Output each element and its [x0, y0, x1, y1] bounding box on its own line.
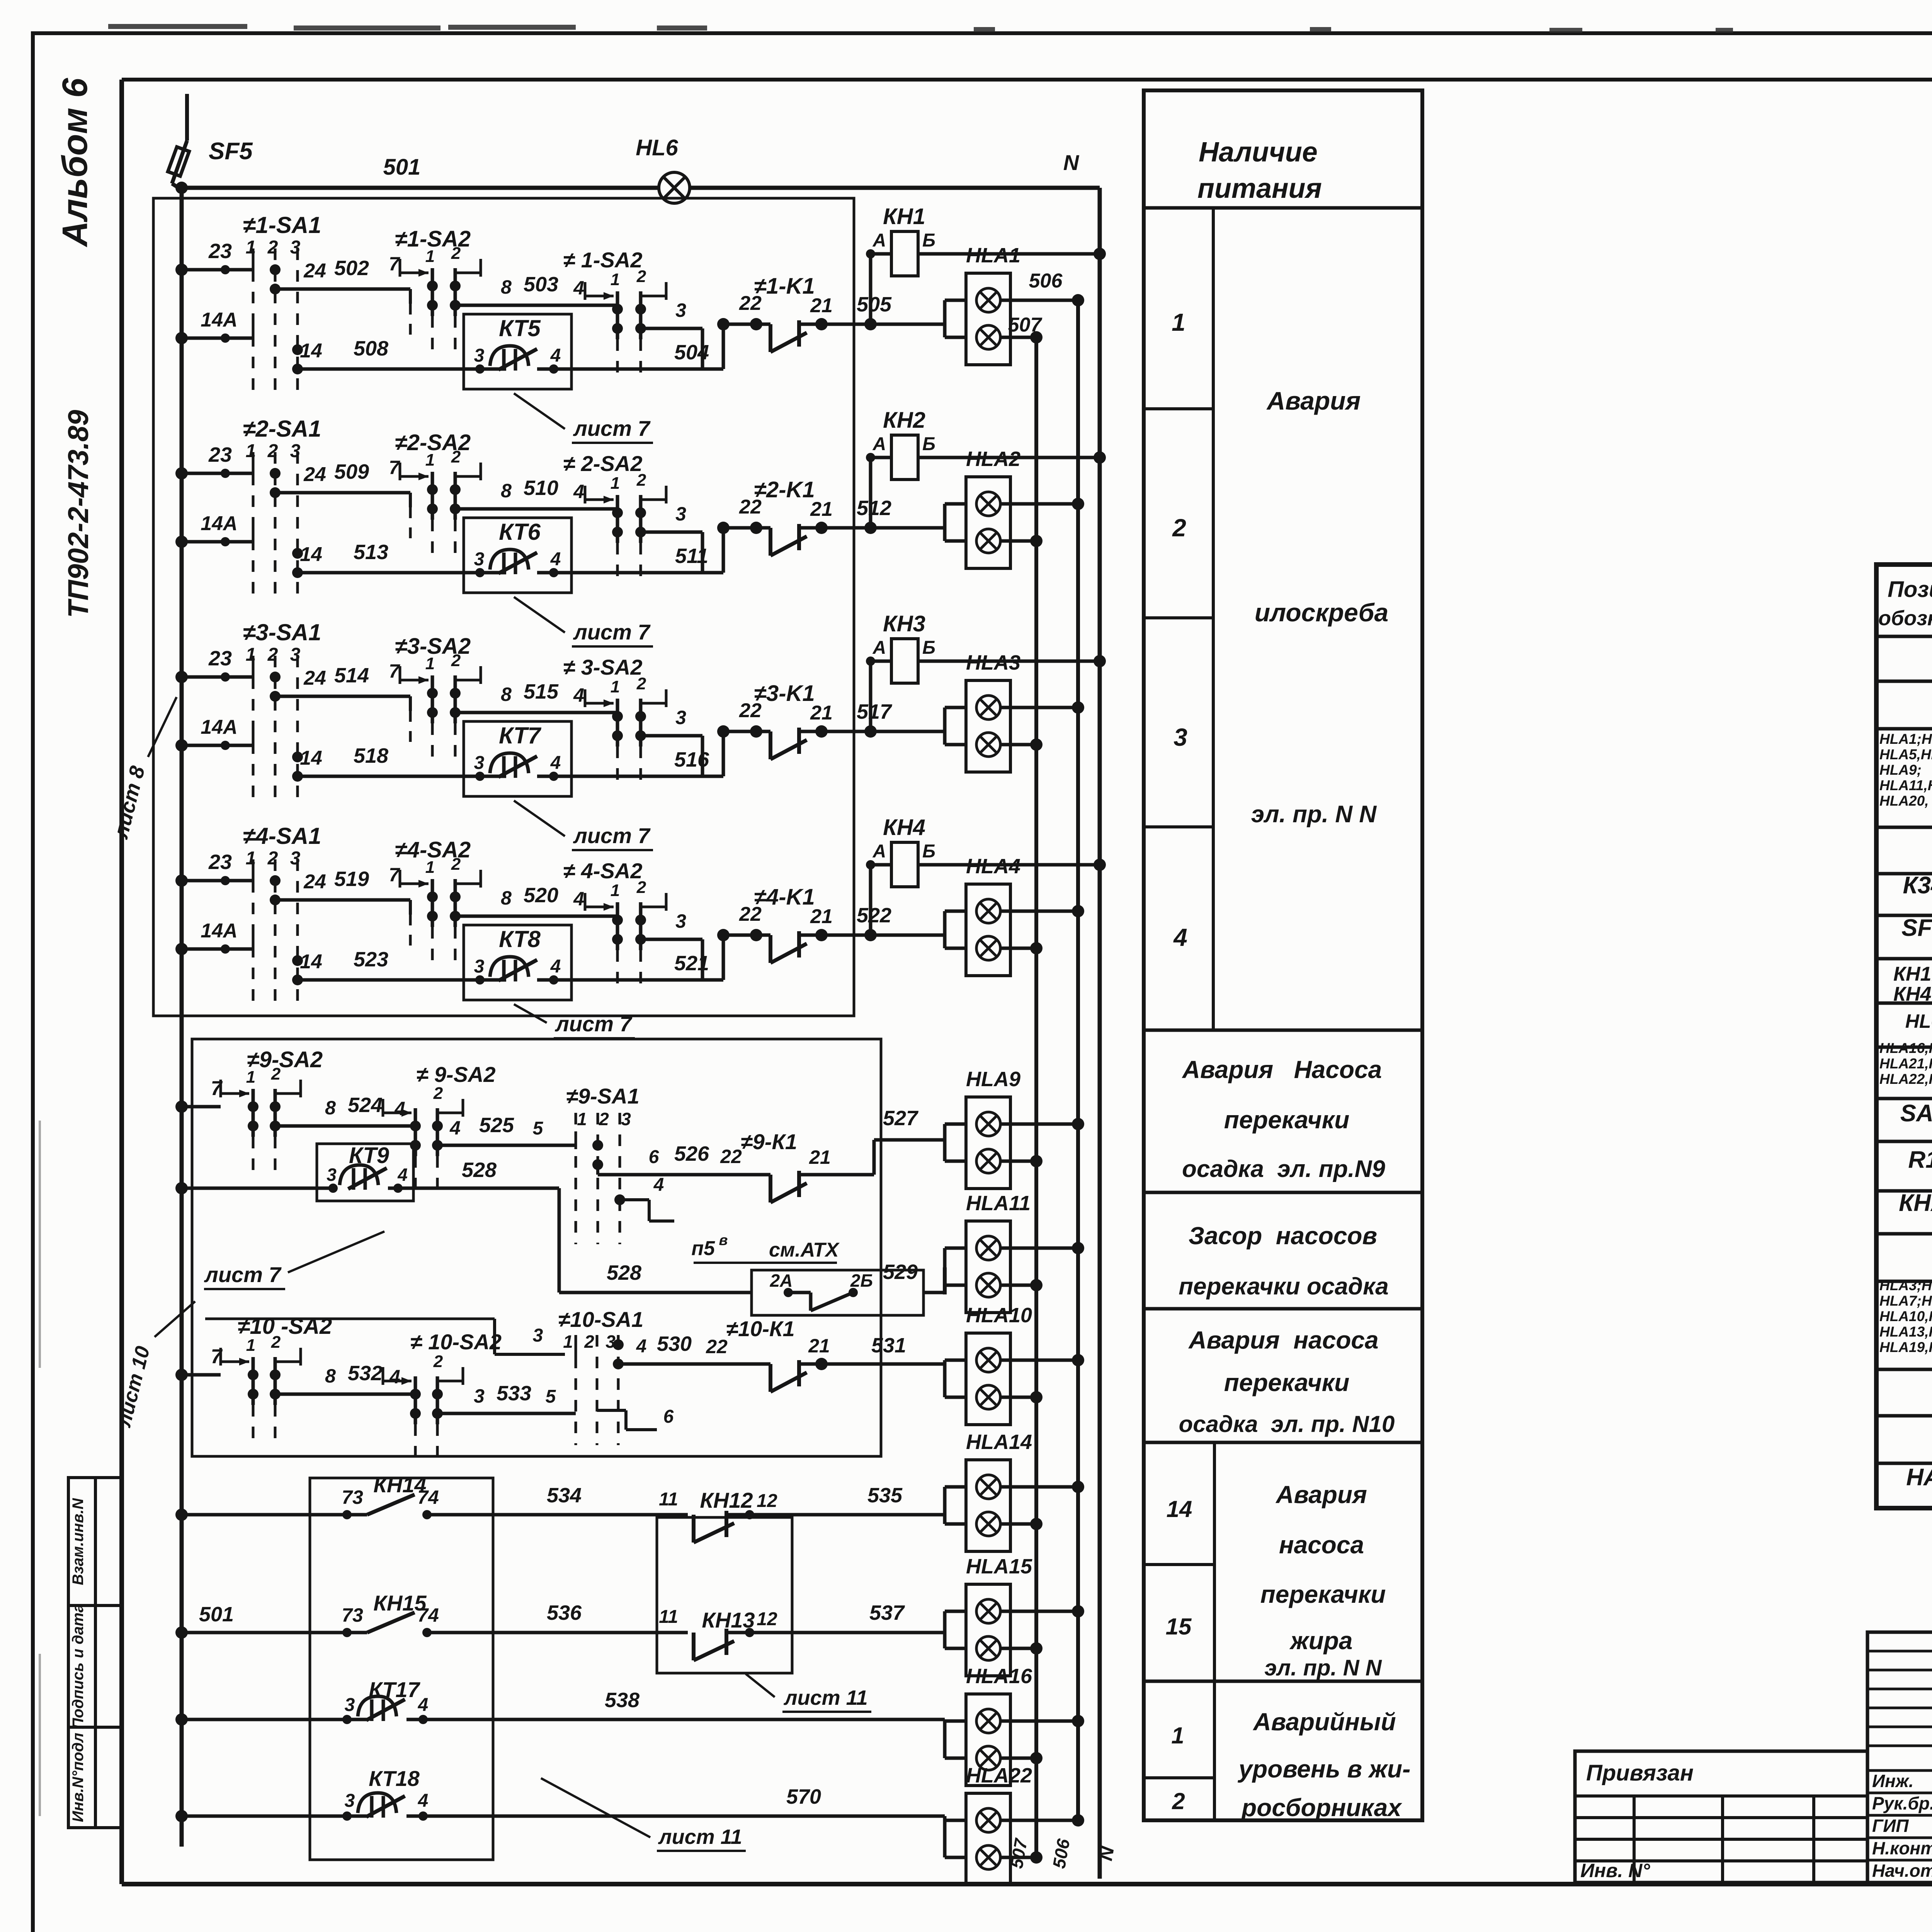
svg-text:2: 2: [1172, 514, 1186, 542]
svg-text:А: А: [872, 638, 886, 658]
wire 517 row 3: [799, 730, 945, 733]
svg-text:14: 14: [300, 340, 322, 362]
wire 511 row 2: [571, 571, 723, 575]
svg-text:HLA7;HLA8: HLA7;HLA8: [1879, 1293, 1932, 1309]
wire 519 row 4: [275, 898, 410, 902]
wire 14 513 row 2: [298, 571, 464, 575]
svg-text:HLA22,HLA25: HLA22,HLA25: [1879, 1071, 1932, 1087]
svg-text:жира: жира: [1289, 1627, 1353, 1655]
svg-text:4: 4: [573, 888, 584, 910]
svg-text:24: 24: [303, 871, 326, 893]
svg-text:эл. пр. N N: эл. пр. N N: [1251, 801, 1377, 828]
wire 23 tap row 3: [182, 675, 253, 679]
svg-text:3: 3: [533, 1325, 543, 1346]
svg-text:538: 538: [605, 1689, 639, 1712]
svg-text:527: 527: [883, 1107, 919, 1130]
svg-text:N: N: [1063, 150, 1080, 175]
contacts box КН12-КН13: [657, 1517, 792, 1673]
svg-text:питания: питания: [1197, 173, 1322, 204]
leader list 8: [148, 697, 177, 757]
svg-text:507: 507: [1008, 314, 1043, 336]
svg-text:ГИП: ГИП: [1872, 1816, 1909, 1836]
wire 3 out row 1: [641, 327, 702, 330]
svg-text:570: 570: [786, 1785, 821, 1808]
svg-text:526: 526: [674, 1142, 709, 1165]
svg-text:HLA21,HLA14,: HLA21,HLA14,: [1879, 1056, 1932, 1071]
svg-text:см.АТХ: см.АТХ: [769, 1239, 840, 1261]
svg-text:1: 1: [425, 858, 435, 877]
svg-text:Рук.бр.: Рук.бр.: [1872, 1793, 1932, 1813]
svg-text:1: 1: [246, 441, 256, 461]
svg-text:HLA9;: HLA9;: [1879, 762, 1922, 778]
svg-text:73: 73: [342, 1486, 363, 1508]
wire 3 from upper box: [493, 1319, 496, 1354]
wire 525 row 9: [437, 1144, 576, 1147]
wire 23 tap row 2: [182, 472, 253, 475]
svg-text:обознач.: обознач.: [1878, 607, 1932, 630]
svg-text:2: 2: [599, 1109, 609, 1129]
svg-text:1: 1: [563, 1332, 573, 1352]
svg-text:1: 1: [246, 1336, 255, 1355]
group box drives 1-4: [153, 198, 854, 1016]
svg-text:2: 2: [451, 855, 461, 874]
svg-text:6: 6: [663, 1406, 674, 1427]
wire 514 row 3: [275, 695, 410, 698]
svg-text:Авария: Авария: [1275, 1481, 1367, 1509]
svg-text:Засор насосов: Засор насосов: [1189, 1222, 1377, 1250]
svg-text:7: 7: [211, 1345, 223, 1368]
svg-text:эл. пр. N N: эл. пр. N N: [1264, 1655, 1382, 1680]
svg-text:2: 2: [271, 1333, 281, 1352]
svg-text:HLA4: HLA4: [966, 855, 1020, 878]
left feeder bus from SF5: [180, 188, 184, 1847]
svg-text:2: 2: [1172, 1788, 1185, 1814]
svg-text:524: 524: [348, 1094, 383, 1117]
time relay contact КТ7: [464, 721, 571, 796]
leader list 7 KT9: [288, 1231, 384, 1272]
svg-text:24: 24: [303, 463, 326, 486]
svg-text:HLA13,HLA18: HLA13,HLA18: [1879, 1324, 1932, 1340]
svg-text:501: 501: [199, 1603, 234, 1626]
svg-text:Аварийный: Аварийный: [1252, 1708, 1396, 1736]
svg-text:1: 1: [246, 1068, 255, 1087]
svg-text:4: 4: [573, 481, 584, 502]
scan artifact smudges: [108, 24, 247, 29]
svg-text:КН13: КН13: [702, 1608, 755, 1632]
svg-text:≠10-К1: ≠10-К1: [726, 1316, 794, 1341]
svg-text:2: 2: [267, 848, 278, 869]
svg-text:3: 3: [474, 1385, 485, 1407]
svg-text:HL6: HL6: [636, 135, 678, 160]
svg-text:Взам.инв.N: Взам.инв.N: [70, 1498, 87, 1585]
svg-text:8: 8: [501, 887, 512, 909]
wire 515 row 3: [455, 711, 617, 714]
svg-text:≠2-SA1: ≠2-SA1: [243, 416, 321, 442]
svg-text:529: 529: [883, 1260, 918, 1284]
svg-text:КН1: КН1: [883, 204, 925, 229]
svg-text:525: 525: [479, 1114, 514, 1137]
svg-text:74: 74: [417, 1486, 439, 1508]
svg-text:≠3-SA1: ≠3-SA1: [243, 619, 321, 645]
component table frame: [1876, 565, 1932, 1508]
svg-text:1: 1: [425, 247, 435, 266]
svg-text:2: 2: [636, 267, 646, 286]
svg-text:HLA5,HLA6;: HLA5,HLA6;: [1879, 747, 1932, 762]
svg-text:≠4-K1: ≠4-K1: [754, 884, 815, 910]
svg-text:КН2: КН2: [883, 408, 925, 433]
svg-text:≠9-К1: ≠9-К1: [741, 1129, 797, 1154]
svg-text:Альбом 6: Альбом 6: [55, 78, 95, 247]
leader list 7 row 1: [514, 393, 565, 429]
svg-text:8: 8: [501, 684, 512, 705]
svg-text:5: 5: [533, 1118, 544, 1139]
svg-text:502: 502: [334, 257, 369, 280]
svg-text:илоскреба: илоскреба: [1255, 598, 1388, 627]
svg-text:14: 14: [1167, 1496, 1192, 1522]
left stamp column boxes: [68, 1478, 122, 1828]
svg-text:лист 7: лист 7: [204, 1262, 282, 1287]
svg-text:осадка эл. пр.N9: осадка эл. пр.N9: [1182, 1156, 1385, 1182]
wire 537: [726, 1631, 945, 1634]
svg-text:74: 74: [417, 1604, 439, 1626]
svg-text:504: 504: [674, 341, 709, 364]
leader list 11 upper: [746, 1674, 775, 1697]
svg-text:≠1-SA1: ≠1-SA1: [243, 212, 321, 238]
svg-text:≠10-SA1: ≠10-SA1: [558, 1307, 644, 1332]
group box drives 9-10: [192, 1039, 881, 1456]
svg-text:1: 1: [425, 451, 435, 469]
svg-text:в: в: [719, 1232, 728, 1248]
svg-text:513: 513: [354, 541, 388, 564]
svg-text:537: 537: [869, 1601, 905, 1624]
svg-text:КНА: КНА: [1899, 1190, 1932, 1216]
svg-text:КТ18: КТ18: [369, 1766, 420, 1791]
svg-text:4: 4: [550, 345, 561, 366]
leader list 7 row 2: [514, 597, 565, 633]
svg-text:12: 12: [757, 1609, 777, 1629]
wire 23 tap row 4: [182, 879, 253, 883]
svg-text:515: 515: [524, 680, 559, 703]
svg-text:528: 528: [607, 1261, 641, 1284]
svg-text:3: 3: [345, 1791, 355, 1811]
svg-text:509: 509: [334, 460, 369, 483]
svg-text:508: 508: [354, 337, 388, 360]
svg-text:22: 22: [739, 903, 762, 925]
svg-text:517: 517: [857, 700, 893, 723]
svg-text:21: 21: [808, 1335, 830, 1357]
svg-text:лист 11: лист 11: [658, 1825, 742, 1849]
bus 506 vertical: [1076, 300, 1080, 1820]
svg-text:HLA10: HLA10: [966, 1304, 1032, 1327]
svg-text:HLA20,: HLA20,: [1879, 793, 1929, 809]
svg-text:4: 4: [573, 277, 584, 299]
svg-text:Б: Б: [922, 841, 935, 862]
svg-text:511: 511: [675, 544, 708, 568]
svg-text:23: 23: [208, 240, 232, 263]
svg-text:73: 73: [342, 1604, 363, 1626]
svg-text:КТ5: КТ5: [499, 315, 541, 341]
svg-text:4: 4: [1173, 923, 1187, 951]
svg-text:4: 4: [418, 1695, 429, 1715]
svg-text:≠4-SA1: ≠4-SA1: [243, 823, 321, 849]
wire HL6 to N corner: [690, 186, 1100, 190]
svg-text:4: 4: [550, 753, 561, 773]
svg-text:12: 12: [757, 1491, 777, 1511]
svg-text:≠9-SA2: ≠9-SA2: [247, 1047, 323, 1072]
svg-text:4: 4: [636, 1336, 647, 1357]
wire 570: [425, 1815, 945, 1818]
svg-text:1: 1: [611, 270, 620, 289]
svg-text:5: 5: [546, 1386, 556, 1407]
svg-text:4: 4: [653, 1175, 664, 1195]
svg-text:1: 1: [246, 237, 256, 258]
svg-text:3: 3: [290, 441, 301, 461]
svg-text:2: 2: [636, 878, 646, 897]
svg-text:перекачки: перекачки: [1260, 1580, 1386, 1608]
svg-text:3: 3: [290, 237, 301, 258]
svg-text:535: 535: [867, 1484, 903, 1507]
svg-text:2: 2: [636, 674, 646, 693]
wire into HLA9: [943, 1124, 947, 1140]
svg-text:≠3-K1: ≠3-K1: [754, 681, 815, 706]
svg-text:насоса: насоса: [1279, 1531, 1364, 1559]
svg-text:24: 24: [303, 667, 326, 689]
svg-text:2: 2: [267, 441, 278, 461]
svg-text:≠ 2-SA2: ≠ 2-SA2: [563, 451, 642, 476]
svg-text:HLA1;HLA2: HLA1;HLA2: [1879, 731, 1932, 747]
svg-text:HLA1: HLA1: [966, 244, 1020, 267]
wire 14 508 row 1: [298, 367, 464, 371]
svg-text:Б: Б: [922, 638, 935, 658]
svg-text:530: 530: [657, 1332, 692, 1355]
svg-text:2: 2: [433, 1084, 443, 1103]
svg-text:А: А: [872, 434, 886, 454]
svg-text:534: 534: [547, 1484, 582, 1507]
svg-text:4: 4: [573, 684, 584, 706]
wire 14A tap row 1: [182, 337, 253, 340]
svg-text:14А: 14А: [201, 512, 237, 535]
svg-text:лист 7: лист 7: [573, 823, 651, 848]
svg-text:3: 3: [675, 503, 686, 525]
svg-text:8: 8: [325, 1365, 336, 1387]
wire 14A tap row 4: [182, 947, 253, 951]
svg-text:4: 4: [397, 1165, 408, 1185]
wire into HLA22: [943, 1816, 947, 1820]
svg-text:КН1...: КН1...: [1893, 963, 1932, 985]
svg-text:8: 8: [325, 1097, 336, 1119]
svg-text:перекачки: перекачки: [1224, 1106, 1350, 1134]
svg-text:2: 2: [451, 651, 461, 670]
wire into HLA16: [943, 1719, 947, 1721]
svg-text:3: 3: [474, 345, 485, 366]
svg-text:≠10 -SA2: ≠10 -SA2: [238, 1314, 332, 1339]
svg-text:2А: 2А: [770, 1270, 793, 1291]
leader list 7 row 4: [514, 1004, 547, 1023]
svg-text:Подпись и дата: Подпись и дата: [70, 1604, 87, 1729]
wire 14 523 row 4: [298, 978, 464, 982]
svg-text:HLA3: HLA3: [966, 651, 1020, 674]
svg-text:23: 23: [208, 647, 232, 670]
wire 526 row 9: [596, 1165, 599, 1175]
svg-text:лист 7: лист 7: [573, 416, 651, 440]
svg-text:21: 21: [810, 905, 833, 928]
svg-text:21: 21: [810, 498, 833, 520]
svg-text:22: 22: [706, 1336, 728, 1357]
svg-text:518: 518: [354, 744, 388, 767]
svg-text:4: 4: [550, 956, 561, 977]
svg-text:514: 514: [334, 664, 369, 687]
svg-text:1: 1: [1172, 308, 1185, 336]
svg-text:3: 3: [474, 956, 485, 977]
svg-text:2: 2: [271, 1065, 281, 1083]
svg-text:2: 2: [584, 1332, 594, 1352]
time relay contact КТ5: [464, 314, 571, 389]
svg-text:≠ 3-SA2: ≠ 3-SA2: [563, 655, 642, 679]
svg-text:8: 8: [501, 480, 512, 502]
wire 504 row 1: [571, 367, 723, 371]
svg-text:1: 1: [1171, 1723, 1184, 1748]
circuit breaker SF5: [185, 94, 189, 141]
svg-text:503: 503: [524, 273, 558, 296]
svg-text:523: 523: [354, 948, 388, 971]
wire 3 out row 2: [641, 531, 702, 534]
svg-text:SA6: SA6: [1900, 1100, 1932, 1127]
svg-text:HL6: HL6: [1905, 1010, 1932, 1032]
svg-text:4: 4: [394, 1098, 405, 1119]
wire 529: [943, 1267, 947, 1294]
box KH14-KT18: [310, 1478, 493, 1860]
svg-text:КТ7: КТ7: [499, 723, 541, 748]
svg-text:≠2-K1: ≠2-K1: [754, 477, 815, 502]
wire into HLA11: [943, 1248, 947, 1293]
wire 535: [726, 1513, 945, 1517]
svg-text:4: 4: [389, 1366, 400, 1388]
svg-text:14: 14: [300, 747, 322, 769]
svg-text:1: 1: [246, 645, 256, 665]
svg-text:росборниках: росборниках: [1241, 1794, 1402, 1821]
title block attach table: [1575, 1751, 1867, 1883]
wire 516 row 3: [571, 775, 723, 778]
svg-text:23: 23: [208, 850, 232, 874]
svg-text:А: А: [872, 841, 886, 862]
svg-text:1: 1: [425, 654, 435, 673]
svg-text:3: 3: [474, 549, 485, 570]
svg-text:HLA22: HLA22: [966, 1764, 1032, 1787]
svg-text:2: 2: [267, 645, 278, 665]
svg-text:Позиц: Позиц: [1888, 577, 1932, 602]
wire 527 row 9: [799, 1173, 874, 1177]
svg-text:11: 11: [659, 1607, 678, 1627]
svg-text:533: 533: [497, 1382, 531, 1405]
svg-text:перекачки: перекачки: [1224, 1369, 1350, 1396]
wire 503 row 1: [455, 304, 617, 307]
svg-text:2: 2: [433, 1352, 443, 1371]
wire into HLA10: [943, 1360, 947, 1364]
svg-text:Наличие: Наличие: [1199, 137, 1318, 168]
svg-text:3: 3: [1173, 723, 1187, 751]
svg-text:3: 3: [290, 645, 301, 665]
wire 510 row 2: [455, 507, 617, 511]
svg-text:лист 11: лист 11: [783, 1686, 868, 1709]
svg-text:3: 3: [290, 848, 301, 869]
wire 3 out row 3: [641, 734, 702, 738]
svg-text:R1: R1: [1908, 1146, 1932, 1173]
svg-text:7: 7: [211, 1077, 223, 1100]
time relay contact КТ6: [464, 518, 571, 593]
frame top band line: [122, 78, 1932, 82]
svg-text:≠1-K1: ≠1-K1: [754, 274, 815, 299]
wire 7 tap row 9: [182, 1105, 221, 1109]
svg-text:4: 4: [449, 1117, 461, 1139]
wire 502 row 1: [275, 287, 410, 291]
svg-text:HLA14: HLA14: [966, 1430, 1032, 1454]
svg-text:SF5: SF5: [209, 138, 253, 165]
svg-text:КТ6: КТ6: [499, 519, 541, 545]
drawing inner frame: [119, 80, 124, 1884]
svg-text:КН4: КН4: [883, 815, 925, 840]
wire 538: [425, 1718, 945, 1721]
svg-text:21: 21: [809, 1146, 831, 1168]
wire 512 row 2: [799, 526, 945, 530]
wire 530 row 10: [618, 1362, 770, 1366]
svg-text:HLA15: HLA15: [966, 1555, 1032, 1578]
svg-text:Б: Б: [922, 230, 935, 251]
bus 507 vertical: [1034, 337, 1038, 1857]
svg-text:536: 536: [547, 1601, 582, 1624]
svg-text:21: 21: [810, 702, 833, 724]
wire 7 tap row 10: [182, 1373, 221, 1377]
svg-text:лист 7: лист 7: [554, 1012, 633, 1036]
svg-text:510: 510: [524, 476, 558, 500]
wire 520 row 4: [455, 915, 617, 918]
svg-text:HLA16: HLA16: [966, 1665, 1032, 1688]
wire 501 top bus: [179, 186, 659, 190]
svg-text:HLA16,HLA12: HLA16,HLA12: [1879, 1040, 1932, 1056]
wire 524 row 9: [275, 1124, 415, 1128]
time relay contact КТ9: [317, 1144, 413, 1201]
svg-text:3: 3: [675, 707, 686, 728]
svg-text:Авария: Авария: [1266, 386, 1361, 415]
svg-text:521: 521: [674, 952, 709, 975]
wire 509 row 2: [275, 491, 410, 495]
wire 533 row 10: [437, 1412, 576, 1415]
svg-text:≠ 10-SA2: ≠ 10-SA2: [410, 1330, 502, 1354]
svg-text:501: 501: [383, 155, 421, 180]
wire 505 row 1: [799, 323, 945, 326]
svg-text:14: 14: [300, 951, 322, 973]
svg-text:3: 3: [675, 299, 686, 321]
svg-text:14: 14: [300, 543, 322, 566]
wire 521 row 4: [571, 978, 723, 982]
svg-text:HLA10,HLA15: HLA10,HLA15: [1879, 1308, 1932, 1324]
wire 6 hook row 10: [597, 1409, 626, 1412]
svg-text:HLA11: HLA11: [966, 1192, 1031, 1215]
leader list 7 row 3: [514, 801, 565, 836]
svg-text:≠ 4-SA2: ≠ 4-SA2: [563, 859, 642, 883]
annunciator table frame: [1144, 90, 1422, 1820]
wire 14A tap row 2: [182, 540, 253, 544]
wire 528: [413, 1187, 559, 1190]
svg-text:1: 1: [611, 677, 620, 696]
svg-text:≠9-SA1: ≠9-SA1: [566, 1084, 639, 1108]
svg-text:HLA19,HLA24: HLA19,HLA24: [1879, 1339, 1932, 1355]
leader list 10: [155, 1301, 195, 1337]
svg-text:Н.контр: Н.контр: [1872, 1838, 1932, 1858]
svg-text:КН12: КН12: [700, 1488, 753, 1512]
wire into HLA15: [943, 1611, 947, 1633]
svg-text:4: 4: [418, 1791, 429, 1811]
time relay contact КТ8: [464, 925, 571, 1000]
